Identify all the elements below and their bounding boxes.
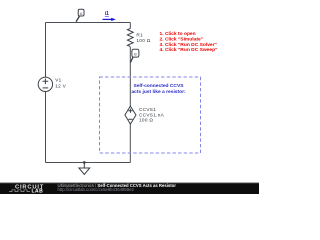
- svg-text:Self-connected CCVS: Self-connected CCVS: [133, 83, 184, 89]
- node A flag: [76, 9, 84, 22]
- node B flag: [130, 49, 139, 62]
- wire left vertical (top: node A to V1 plus): [45, 23, 47, 78]
- svg-text:4. Click "Run DC Sweep": 4. Click "Run DC Sweep": [160, 47, 218, 53]
- wire right vertical (top wire to resistor R1): [129, 23, 131, 29]
- wire left vertical (V1 minus to ground net): [45, 92, 47, 163]
- wire top horizontal A node net: [46, 22, 131, 24]
- svg-text:100 Ω: 100 Ω: [136, 38, 150, 43]
- svg-text:CCVS1.nA: CCVS1.nA: [139, 112, 165, 117]
- footer logo waveform: [9, 190, 30, 192]
- svg-text:B: B: [134, 52, 137, 57]
- wire CCVS1 bottom to ground net: [129, 124, 131, 163]
- svg-text:R1: R1: [136, 33, 143, 38]
- dependent source CCVS1 (diamond): [125, 106, 136, 124]
- annotation dashed blue box: [100, 77, 201, 153]
- current arrow i1: [103, 18, 112, 20]
- footer bar: [0, 183, 259, 194]
- svg-text:CCVS1: CCVS1: [139, 107, 156, 112]
- wire bottom horizontal ground net: [46, 162, 131, 164]
- svg-text:12 V: 12 V: [55, 84, 66, 89]
- voltage source V1: [38, 77, 52, 91]
- ground symbol: [79, 163, 90, 175]
- svg-text:i1: i1: [105, 11, 109, 17]
- svg-text:100 Ω: 100 Ω: [139, 118, 153, 123]
- junction dot ground net: [83, 161, 86, 164]
- svg-text:3. Click "Run DC Solver": 3. Click "Run DC Solver": [160, 42, 217, 48]
- svg-text:V1: V1: [55, 78, 61, 83]
- svg-text:http://circuitlab.com/c/ce5e9b: http://circuitlab.com/c/ce5e9b4364958e2: [58, 187, 135, 192]
- svg-text:1. Click to open: 1. Click to open: [160, 31, 196, 37]
- svg-text:A: A: [80, 11, 83, 16]
- svg-text:acts just like a resistor:: acts just like a resistor:: [131, 89, 186, 95]
- resistor R1: [127, 29, 133, 47]
- wire node B segment (R1 bottom to CCVS1 top): [129, 47, 131, 106]
- svg-text:2. Click "Simulate": 2. Click "Simulate": [160, 37, 204, 43]
- annotation red instructions: [160, 31, 218, 53]
- svg-text:LAB: LAB: [32, 189, 44, 194]
